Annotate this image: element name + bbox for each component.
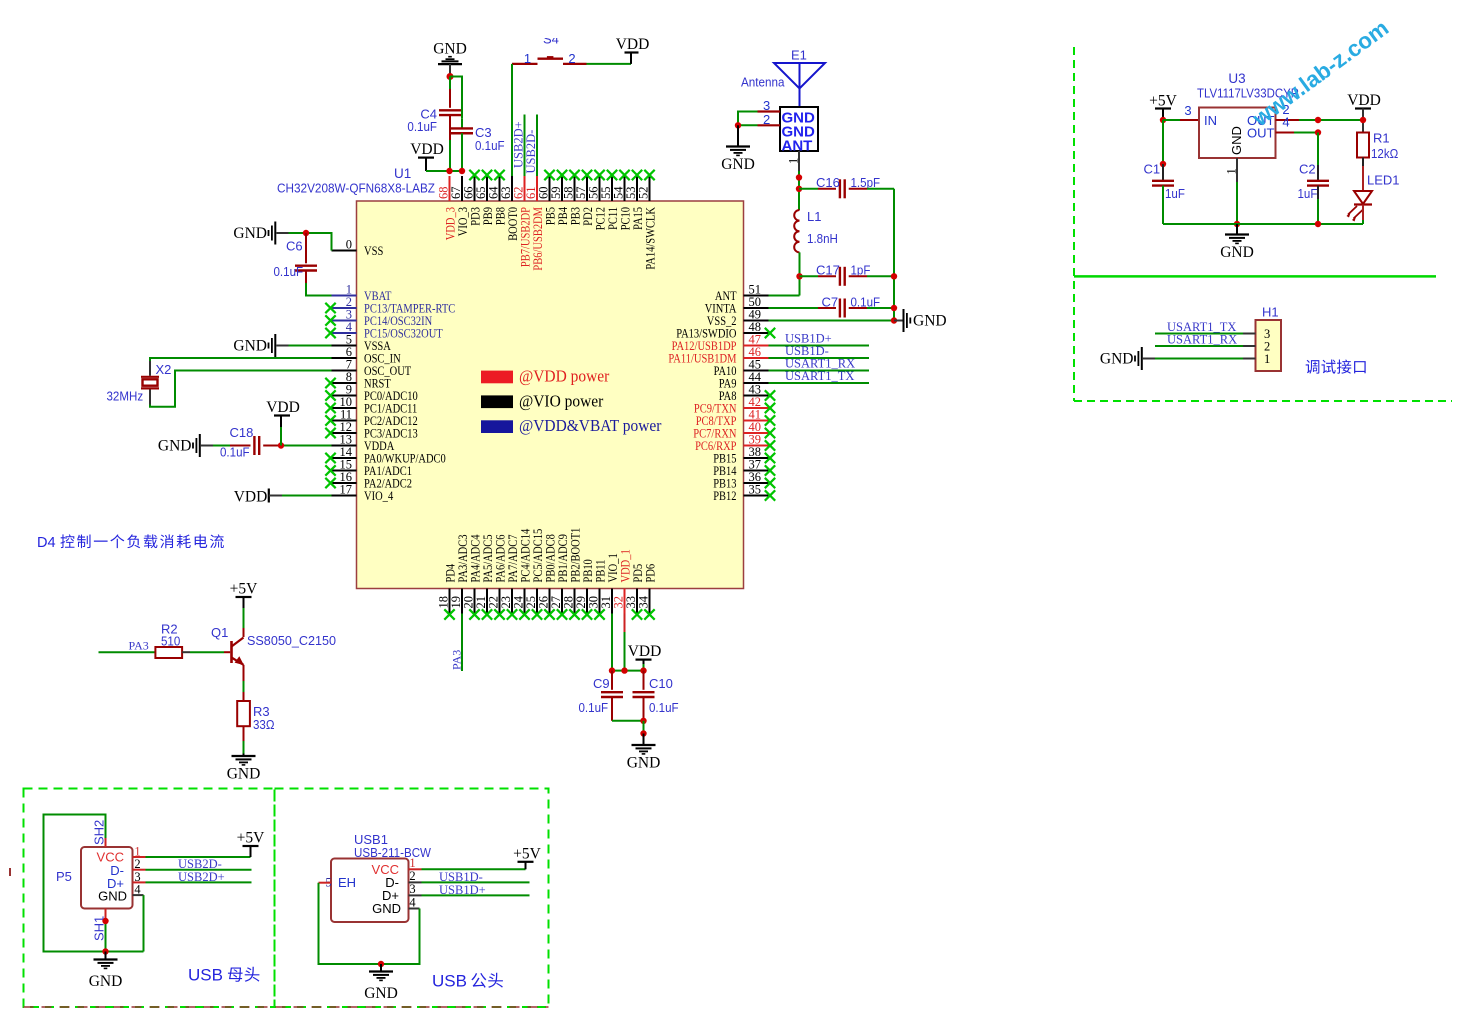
junction pin 67 top: [459, 168, 465, 174]
svg-text:VIO_4: VIO_4: [364, 489, 394, 503]
svg-text:U3: U3: [1228, 71, 1245, 86]
ground symbol (Q1): [232, 755, 256, 757]
legend swatch @VIO power (black): [481, 395, 513, 408]
svg-text:0: 0: [346, 237, 352, 251]
wire C16 to right rail: [849, 188, 867, 190]
junction VDD/OUT: [1360, 117, 1366, 123]
switch S4: [512, 57, 587, 64]
svg-text:0.1uF: 0.1uF: [649, 700, 679, 715]
connector USB1 (USB male): [331, 859, 409, 923]
ANT connector box (GND GND ANT): [780, 107, 818, 155]
wire USART1_RX net (pin 45): [769, 370, 870, 372]
capacitor C4: [439, 109, 461, 111]
wire C4 to junction at pin 68: [449, 115, 451, 140]
svg-text:2: 2: [763, 112, 770, 127]
ANT box pin 2 stub: [758, 124, 781, 126]
svg-text:1: 1: [1225, 168, 1239, 174]
svg-text:GND: GND: [721, 156, 755, 173]
U1 pin 29 PB10 (bottom): [574, 559, 595, 620]
U1 pin 27 PB1/ADC9 (bottom): [549, 534, 570, 620]
P5 shield pin SH2: [105, 838, 107, 847]
svg-text:GND: GND: [372, 901, 401, 916]
legend swatch @VDD&VBAT power (navy): [481, 420, 513, 433]
P5 shield pin SH1: [105, 909, 107, 919]
svg-text:@VDD&VBAT power: @VDD&VBAT power: [519, 416, 662, 435]
svg-text:GND: GND: [1220, 244, 1254, 261]
junction ANT GND wire: [735, 122, 741, 128]
U1 pin 2 PC13/TAMPER-RTC (left): [325, 295, 455, 316]
wire BOOT0 net (pin 63 to S4): [511, 64, 513, 176]
svg-text:52: 52: [637, 187, 651, 200]
svg-text:1: 1: [409, 856, 415, 870]
U1 pin 62 PB7/USB2DP (top): [512, 176, 533, 267]
svg-text:1pF: 1pF: [851, 263, 871, 278]
wire GND to VSS pin 0: [289, 233, 332, 251]
wire PA3 net (pin 19): [461, 614, 463, 672]
svg-text:U1: U1: [394, 166, 411, 181]
crystal X2 32MHz: [141, 377, 159, 389]
svg-text:34: 34: [637, 595, 651, 608]
U1 pin 21 PA5/ADC5 (bottom): [474, 535, 495, 620]
wire C18 to VDDA pin 13: [263, 445, 281, 447]
U1 pin 13 VDDA (left): [332, 432, 395, 453]
junction right rail / C17: [891, 273, 897, 279]
junction P5 GND: [102, 948, 108, 954]
svg-text:1: 1: [787, 158, 801, 164]
resistor R2: [155, 647, 182, 658]
U1 pin 42 PC9/TXN (right): [694, 395, 775, 416]
U1 pin 39 PC6/RXP (right): [695, 432, 775, 453]
U1 pin 48 PA13/SWDIO (right): [676, 320, 775, 341]
svg-text:PD6: PD6: [644, 563, 658, 582]
section divider bottom dashed: [1074, 400, 1452, 402]
svg-text:32MHz: 32MHz: [107, 389, 144, 404]
wire S4 to VDD: [587, 63, 632, 65]
wire C9/C10 bottom rail: [612, 720, 644, 722]
svg-text:GND: GND: [433, 41, 467, 58]
wire C3 to junction at pin 67: [461, 133, 463, 171]
svg-text:R1: R1: [1373, 131, 1390, 146]
transistor Q1 SS8050_C2150: [232, 638, 245, 666]
wire C7 right: [849, 307, 867, 309]
U1 pin 4 PC15/OSC32OUT (left): [325, 320, 443, 341]
section divider (green dashed box left edge): [1073, 47, 1075, 401]
svg-text:L1: L1: [807, 209, 821, 224]
U1 pin 31 VIO_1 (bottom): [599, 553, 620, 613]
ground symbol (right of chip): [903, 309, 905, 332]
svg-text:1: 1: [1264, 352, 1270, 366]
U1 pin 54 PC10 (top): [612, 170, 633, 230]
legend swatch @VDD power (red): [481, 371, 513, 384]
wire P5 D+ (USB2D+): [133, 881, 146, 883]
U1 pin 19 PA3/ADC3 (bottom): [449, 535, 470, 614]
wire VDD_1 pin32 down: [624, 614, 626, 633]
section box USB male (dashed): [275, 789, 549, 1008]
ground symbol (USB1): [369, 970, 393, 972]
junction USB1 GND: [378, 961, 384, 967]
svg-text:GND: GND: [158, 438, 192, 455]
junction C1: [1160, 161, 1166, 167]
svg-text:USART1_RX: USART1_RX: [1167, 333, 1237, 347]
U1 pin 6 OSC_IN (left): [332, 345, 401, 366]
LED LED1: [1347, 191, 1373, 222]
ground symbol (P5): [94, 958, 118, 960]
H1 pin 3 stub: [1243, 333, 1256, 335]
power symbol +5V (USB1): [513, 846, 541, 870]
junction L1/C17: [796, 273, 802, 279]
svg-text:GND: GND: [98, 889, 127, 904]
svg-text:USB1D+: USB1D+: [439, 883, 486, 897]
svg-text:C16: C16: [816, 175, 840, 190]
svg-text:4: 4: [409, 896, 416, 910]
svg-text:C2: C2: [1299, 162, 1316, 177]
junction C2 bottom: [1315, 221, 1321, 227]
svg-text:C10: C10: [649, 676, 673, 691]
junction bottom rail: [640, 718, 646, 724]
wire P5 VCC to +5V: [133, 856, 146, 858]
U1 pin 53 PA15 (top): [624, 170, 645, 230]
svg-text:SH2: SH2: [92, 820, 107, 845]
svg-text:GND: GND: [1229, 126, 1244, 155]
U1 pin 41 PC8/TXP (right): [696, 407, 776, 428]
svg-text:USB: USB: [432, 972, 467, 991]
svg-text:1uF: 1uF: [1298, 186, 1318, 201]
wire P5 D- (USB2D-): [133, 869, 146, 871]
svg-text:1: 1: [524, 51, 531, 66]
U1 pin 32 VDD_1 (bottom): [612, 549, 633, 613]
wire C17 right: [849, 275, 867, 277]
U1 pin 34 PD6 (bottom): [637, 563, 658, 619]
U1 pin 8 NRST (left): [325, 370, 391, 391]
U1 pin 15 PA1/ADC1 (left): [325, 457, 412, 478]
wire USB1D+ net (pin 47): [769, 345, 870, 347]
svg-text:0.1uF: 0.1uF: [220, 445, 250, 460]
capacitor C18: [253, 436, 255, 455]
svg-text:VDD: VDD: [266, 399, 300, 416]
power symbol VDD (U3 out): [1347, 92, 1381, 109]
wire USB1D- net (pin 46): [769, 357, 870, 359]
U1 pin 26 PB0/ADC8 (bottom): [537, 534, 558, 620]
svg-text:Antenna: Antenna: [741, 75, 785, 90]
svg-text:USB: USB: [188, 966, 223, 985]
svg-text:PB12: PB12: [713, 489, 736, 503]
svg-text:+5V: +5V: [237, 830, 265, 847]
ground symbol (U3): [1236, 224, 1238, 235]
wire junction down to C4: [449, 77, 451, 90]
svg-text:2: 2: [568, 51, 575, 66]
capacitor C1: [1162, 164, 1164, 180]
svg-text:4: 4: [1282, 115, 1289, 130]
U1 pin 3 PC14/OSC32IN (left): [325, 307, 432, 328]
svg-text:GND: GND: [364, 985, 398, 1002]
wire C1: [1162, 120, 1164, 164]
capacitor C17: [839, 267, 841, 286]
wire to C16: [799, 188, 818, 190]
svg-text:2: 2: [409, 869, 415, 883]
wire ANT box pins 2,3 to GND: [738, 112, 758, 126]
svg-text:0.1uF: 0.1uF: [274, 264, 304, 279]
U1 pin 0 VSS (left): [332, 237, 384, 258]
svg-text:VDD: VDD: [628, 643, 662, 660]
U1 pin 46 PA11/USB1DM (right): [668, 345, 768, 366]
U1 pin 22 PA6/ADC6 (bottom): [487, 534, 508, 620]
wire VDD down: [643, 660, 645, 664]
U1 pin 63 BOOT0 (top): [499, 176, 520, 241]
svg-text:USART1_TX: USART1_TX: [785, 369, 854, 383]
U1 pin 12 PC3/ADC13 (left): [325, 420, 417, 441]
wire GND to VSSA: [289, 345, 332, 347]
svg-text:E1: E1: [791, 48, 807, 63]
svg-text:P5: P5: [56, 869, 72, 884]
junction ANT node a: [796, 174, 802, 180]
ANT box pin 3 stub: [758, 110, 781, 112]
svg-text:GND: GND: [89, 973, 123, 990]
annotation debug port (CJK): [1306, 359, 1366, 373]
connector P5 (USB female): [81, 847, 133, 909]
U1 pin 43 PA8 (right): [719, 382, 775, 403]
svg-text:1.5pF: 1.5pF: [851, 175, 881, 190]
wire R1 to LED1: [1362, 158, 1364, 167]
wire to GND junction: [643, 721, 645, 734]
svg-text:PA3: PA3: [129, 639, 149, 653]
header H1: [1256, 320, 1282, 371]
U1 pin 66 PD3 (top): [462, 170, 483, 226]
U1 pin 47 PA12/USB1DP (right): [672, 332, 769, 353]
U1 pin 50 VINTA (right): [705, 295, 769, 316]
svg-text:12kΩ: 12kΩ: [1371, 146, 1399, 161]
svg-text:SS8050_C2150: SS8050_C2150: [247, 633, 336, 648]
svg-text:@VIO power: @VIO power: [519, 391, 604, 410]
wire VIO_1 pin31 down: [611, 614, 613, 671]
junction C10/VDD: [640, 667, 646, 673]
svg-text:@VDD power: @VDD power: [519, 367, 610, 386]
junction C9 top: [609, 667, 615, 673]
wire to right GND: [894, 320, 903, 322]
wire GND to H1 pin1: [1155, 358, 1243, 360]
junction at C4 top: [447, 73, 454, 80]
U1 pin 64 PB8 (top): [487, 170, 508, 225]
junction pin4/C2: [1315, 129, 1321, 135]
U1 pin 40 PC7/RXN (right): [693, 420, 775, 441]
U1 pin 38 PB15 (right): [713, 445, 775, 466]
power symbol +5V (Q1): [230, 581, 258, 598]
svg-text:VSS: VSS: [364, 244, 383, 258]
svg-text:0.1uF: 0.1uF: [407, 119, 437, 134]
wire USB1 D- (USB1D-): [409, 881, 422, 883]
svg-text:C9: C9: [593, 676, 610, 691]
svg-text:VDD: VDD: [616, 36, 650, 53]
svg-text:0.1uF: 0.1uF: [579, 700, 609, 715]
wire USART1_TX net (pin 44): [769, 382, 870, 384]
wire EH shield loop: [319, 883, 382, 964]
U1 pin 20 PA4/ADC4 (bottom): [462, 534, 483, 620]
U1 pin 68 VDD_3 (top): [437, 176, 458, 240]
svg-text:PA14/SWCLK: PA14/SWCLK: [644, 206, 658, 269]
svg-text:17: 17: [340, 482, 353, 496]
capacitor C9: [611, 671, 613, 690]
svg-text:CH32V208W-QFN68X8-LABZ: CH32V208W-QFN68X8-LABZ: [277, 181, 435, 196]
wire emitter down to R3: [243, 665, 245, 681]
svg-text:0.1uF: 0.1uF: [475, 138, 505, 153]
U1 pin 58 PB3 (top): [562, 170, 583, 225]
ground symbol (C9/C10): [632, 744, 656, 746]
svg-text:3: 3: [1184, 103, 1191, 118]
U3 bottom rail: [1163, 223, 1363, 225]
svg-text:C17: C17: [816, 263, 840, 278]
capacitor C6: [305, 233, 307, 263]
wire C6 to VBAT pin 1: [305, 271, 307, 284]
svg-text:VDD: VDD: [1347, 92, 1381, 109]
U1 pin 1 VBAT (left): [332, 282, 392, 303]
section box USB female (dashed): [24, 789, 275, 1008]
U1 pin 57 PD2 (top): [574, 170, 595, 226]
svg-text:33Ω: 33Ω: [253, 717, 275, 732]
U1 pin 10 PC1/ADC11 (left): [325, 395, 417, 416]
svg-text:LED1: LED1: [1367, 173, 1400, 188]
U1 pin 24 PC4/ADC14 (bottom): [512, 528, 533, 619]
svg-text:+5V: +5V: [513, 846, 541, 863]
junction GND: [640, 730, 646, 736]
wire crystal to OSC_OUT pin 7: [149, 390, 151, 405]
svg-text:ANT: ANT: [782, 138, 813, 155]
wire GND to C18: [213, 445, 230, 447]
U1 pin 59 PB4 (top): [549, 170, 570, 225]
wire GND stub (P5): [105, 952, 107, 960]
U1 pin 14 PA0/WKUP/ADC0 (left): [325, 445, 446, 466]
junction C6 top: [303, 230, 309, 236]
U1 pin 28 PB2/BOOT1 (bottom): [562, 528, 583, 620]
U1 pin 17 VIO_4 (left): [332, 482, 394, 503]
svg-text:USB2D-: USB2D-: [524, 130, 538, 174]
wire +5V to IN: [1162, 109, 1164, 121]
junction +5V/C1: [1160, 117, 1166, 123]
U1 pin 60 PB5 (top): [537, 170, 558, 225]
wire down to GND: [737, 125, 739, 146]
U1 pin 51 ANT (right): [715, 282, 769, 303]
U3 pin 2 wire: [1276, 119, 1300, 121]
svg-text:35: 35: [749, 482, 762, 496]
wire C9/C10 top rail: [612, 670, 644, 672]
U1 pin 52 PA14/SWCLK (top): [637, 170, 658, 270]
capacitor C7: [839, 299, 841, 318]
svg-text:X2: X2: [156, 362, 172, 377]
U1 pin 67 VIO_3 (top): [449, 176, 470, 236]
capacitor C2: [1307, 180, 1329, 182]
U1 pin 61 PB6/USB2DM (top): [524, 176, 545, 271]
U3 GND pin wire: [1236, 158, 1238, 182]
svg-text:3: 3: [409, 882, 415, 896]
svg-text:1.8nH: 1.8nH: [807, 231, 838, 246]
svg-text:GND: GND: [233, 338, 267, 355]
wire LED1 to rail: [1362, 205, 1364, 221]
wire USB2D+ net (pin 62): [524, 115, 526, 177]
junction pin 68 top: [446, 168, 452, 174]
svg-text:USB-211-BCW: USB-211-BCW: [354, 845, 432, 860]
U1 pin 9 PC0/ADC10 (left): [325, 382, 417, 403]
H1 pin 2 stub: [1243, 345, 1256, 347]
wire SH2 loop: [44, 815, 144, 952]
wire USB1 GND pin 4: [409, 908, 420, 910]
H1 pin 1 stub: [1243, 358, 1256, 360]
voltage regulator U3 TLV1117LV33DCYR: [1199, 108, 1276, 159]
wire GND stub (USB1): [380, 964, 382, 972]
label S4 (clipped): [543, 32, 559, 47]
capacitor C10: [643, 671, 645, 690]
U1 pin 30 PB11 (bottom): [587, 560, 608, 620]
svg-text:PA3: PA3: [450, 650, 464, 670]
U1 pin 35 PB12 (right): [713, 482, 775, 503]
wire VDD to VIO_4: [269, 495, 282, 497]
U1 pin 36 PB13 (right): [713, 470, 775, 491]
svg-text:USB2D+: USB2D+: [178, 870, 225, 884]
wire VDD to pin68/67 junctions: [425, 158, 427, 171]
wire right rail down: [893, 189, 895, 321]
wire USB1 VCC to +5V: [409, 868, 422, 870]
wire pin 50 VINTA to C7: [769, 307, 819, 309]
U1 pin 5 VSSA (left): [332, 332, 392, 353]
svg-text:GND: GND: [627, 755, 661, 772]
junction C18/VDD: [278, 442, 284, 448]
U1 pin 33 PD5 (bottom): [624, 564, 645, 620]
junction ANT node b: [796, 186, 802, 192]
U1 pin 45 PA10 (right): [714, 357, 769, 378]
svg-text:GND: GND: [227, 766, 261, 783]
U3 pin 4 wire: [1276, 132, 1295, 134]
wire junction to C3 branch: [450, 77, 462, 119]
U1 pin 16 PA2/ADC2 (left): [325, 470, 412, 491]
wire R3 to GND: [243, 726, 245, 741]
wire GND stub: [643, 734, 645, 746]
svg-text:GND: GND: [1100, 351, 1134, 368]
power symbol +5V (U3): [1149, 93, 1177, 110]
U1 pin 65 PB9 (top): [474, 170, 495, 225]
svg-text:VDD: VDD: [410, 141, 444, 158]
U1 pin 56 PC12 (top): [587, 170, 608, 230]
svg-text:Q1: Q1: [211, 625, 228, 640]
ground symbol (antenna): [726, 145, 750, 147]
svg-text:VDD: VDD: [234, 489, 268, 506]
wire USB1 D+ (USB1D+): [409, 894, 422, 896]
svg-text:H1: H1: [1262, 305, 1279, 320]
wire R2 to base: [182, 651, 190, 653]
MCU U1 body CH32V208W-QFN68X8-LABZ: [357, 201, 744, 589]
U1 pin 44 PA9 (right): [719, 370, 769, 391]
svg-text:510: 510: [161, 634, 180, 649]
ANT box pin 1 stub (bottom): [798, 151, 800, 171]
svg-text:C1: C1: [1144, 162, 1161, 177]
junction right rail bottom: [891, 317, 897, 323]
U1 pin 55 PC11 (top): [599, 170, 620, 230]
wire C2 column: [1317, 133, 1319, 166]
wire C17 left: [800, 275, 819, 277]
wire VDD to R1: [1362, 109, 1364, 133]
capacitor C3: [461, 119, 463, 129]
svg-text:IN: IN: [1204, 113, 1217, 128]
svg-text:EH: EH: [338, 875, 356, 890]
svg-text:USB1D-: USB1D-: [439, 870, 483, 884]
capacitor C16: [839, 179, 841, 198]
svg-text:C6: C6: [286, 239, 303, 254]
wire L1 to pin 51: [799, 252, 801, 295]
power symbol +5V (P5): [237, 830, 265, 858]
svg-text:C18: C18: [230, 425, 254, 440]
wire USART1_TX to H1: [1155, 333, 1243, 335]
svg-text:1uF: 1uF: [1165, 186, 1185, 201]
wire OSC_IN pin 6 to crystal: [150, 358, 332, 361]
U1 pin 25 PC5/ADC15 (bottom): [524, 529, 545, 620]
U1 pin 49 VSS_2 (right): [707, 307, 769, 328]
U1 pin 11 PC2/ADC12 (left): [325, 407, 417, 428]
